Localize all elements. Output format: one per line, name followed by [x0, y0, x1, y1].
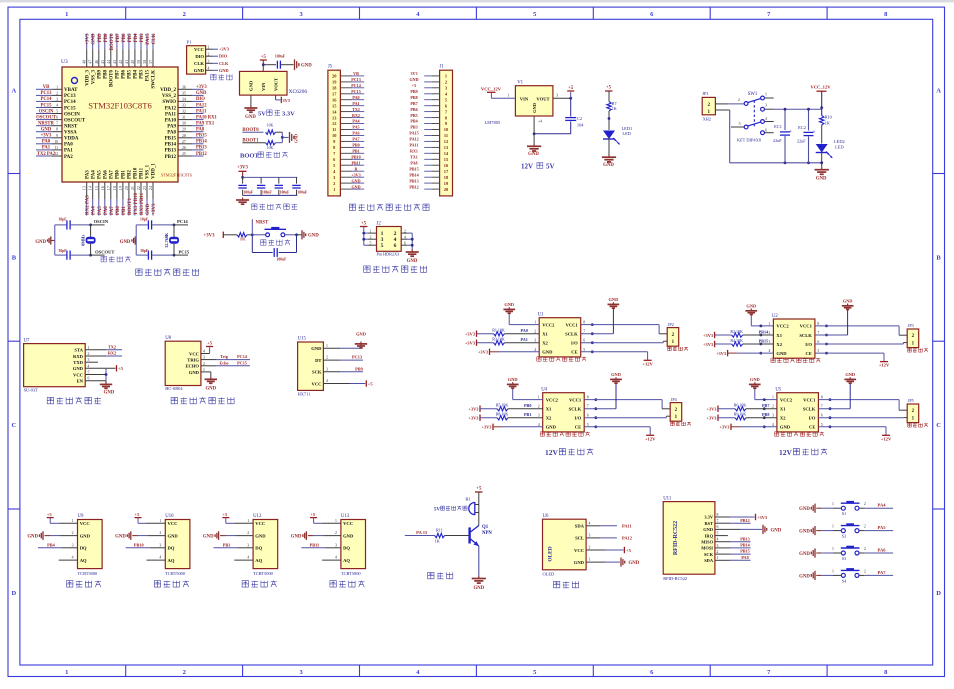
svg-text:4: 4 [335, 556, 337, 560]
svg-text:3: 3 [88, 358, 90, 362]
svg-text:6: 6 [394, 243, 397, 249]
svg-text:+3V3: +3V3 [468, 416, 479, 421]
svg-text:TX2: TX2 [108, 344, 116, 349]
svg-text:+3V3: +3V3 [706, 407, 717, 412]
svg-text:PA5: PA5 [98, 206, 103, 215]
svg-text:11: 11 [332, 127, 336, 132]
svg-text:C: C [12, 422, 17, 429]
svg-text:VCC: VCC [574, 548, 584, 553]
svg-text:+12V: +12V [642, 361, 653, 366]
svg-text:+3V3: +3V3 [757, 515, 768, 520]
svg-text:PB0: PB0 [116, 170, 121, 179]
svg-text:P1: P1 [187, 40, 192, 45]
svg-text:PB10: PB10 [351, 155, 360, 160]
svg-text:GND: GND [80, 533, 91, 538]
svg-text:+5: +5 [310, 512, 316, 517]
svg-text:PA1: PA1 [42, 146, 51, 151]
svg-text:PB14: PB14 [759, 329, 769, 334]
svg-text:+3V3: +3V3 [351, 172, 360, 177]
svg-text:17: 17 [106, 186, 111, 190]
svg-text:1: 1 [381, 231, 384, 237]
svg-text:DIO: DIO [195, 54, 204, 59]
svg-text:PA4: PA4 [91, 170, 96, 179]
svg-text:SCK: SCK [704, 552, 714, 557]
svg-text:33: 33 [182, 104, 186, 108]
svg-text:3: 3 [203, 356, 205, 360]
svg-text:VCC: VCC [189, 351, 199, 356]
svg-text:+3V3: +3V3 [716, 351, 727, 356]
svg-text:+3V3: +3V3 [204, 234, 216, 239]
svg-text:Echo: Echo [219, 360, 228, 365]
svg-text:6: 6 [717, 525, 719, 529]
svg-text:R8 10K: R8 10K [496, 412, 509, 417]
svg-text:5: 5 [739, 122, 741, 126]
svg-text:PB15: PB15 [165, 137, 177, 142]
svg-text:SCLK: SCLK [803, 407, 816, 412]
svg-text:VCC_12V: VCC_12V [810, 84, 831, 89]
svg-text:CLK: CLK [219, 61, 229, 66]
svg-text:GND: GND [245, 115, 256, 120]
svg-text:GND: GND [532, 103, 537, 113]
svg-text:PB7: PB7 [762, 403, 769, 408]
svg-text:100nF: 100nF [280, 191, 291, 195]
svg-text:2: 2 [208, 52, 210, 56]
svg-text:STM32F103C8T6: STM32F103C8T6 [161, 173, 192, 178]
svg-text:28: 28 [182, 134, 186, 138]
svg-text:8: 8 [817, 322, 819, 326]
svg-text:2: 2 [247, 531, 249, 535]
svg-text:+3V3: +3V3 [86, 33, 91, 45]
svg-text:10pF: 10pF [140, 218, 149, 222]
svg-text:4: 4 [159, 556, 161, 560]
svg-text:22uF: 22uF [797, 138, 806, 143]
svg-text:VCC2: VCC2 [776, 324, 789, 329]
svg-text:PA1: PA1 [521, 337, 528, 342]
svg-text:1K: 1K [612, 106, 617, 111]
svg-text:VDD_1: VDD_1 [152, 163, 157, 179]
svg-text:30pF: 30pF [59, 249, 68, 253]
svg-text:5V: 5V [434, 508, 441, 513]
svg-text:PB3: PB3 [140, 33, 145, 42]
svg-text:22: 22 [136, 186, 141, 190]
svg-text:1: 1 [534, 321, 536, 325]
svg-text:GND: GND [746, 304, 756, 309]
svg-text:XH2: XH2 [703, 117, 711, 122]
svg-text:+3V3: +3V3 [703, 333, 714, 338]
svg-text:CE: CE [806, 351, 812, 356]
svg-text:PB15: PB15 [759, 338, 769, 343]
svg-text:PA10: PA10 [165, 118, 177, 123]
svg-text:PA4: PA4 [352, 119, 359, 124]
svg-text:PB4: PB4 [134, 33, 139, 42]
svg-text:2: 2 [394, 231, 397, 237]
svg-text:U15: U15 [298, 337, 307, 342]
svg-text:3: 3 [247, 543, 249, 547]
svg-text:RX2 PA3: RX2 PA3 [86, 195, 91, 215]
svg-text:PA11: PA11 [165, 112, 177, 117]
svg-text:5: 5 [587, 423, 589, 427]
svg-text:PA6: PA6 [878, 548, 887, 553]
svg-text:PA11: PA11 [409, 143, 418, 148]
svg-text:PB9: PB9 [410, 89, 417, 94]
svg-text:PB13: PB13 [409, 178, 418, 183]
svg-text:BOOT0: BOOT0 [109, 70, 114, 87]
svg-text:PC13: PC13 [41, 91, 53, 96]
svg-text:23: 23 [142, 186, 147, 190]
svg-text:100nF: 100nF [275, 55, 286, 59]
svg-text:A: A [936, 87, 941, 94]
svg-text:D: D [12, 590, 17, 597]
svg-text:1: 1 [208, 45, 210, 49]
svg-text:MISO: MISO [701, 540, 713, 545]
svg-text:SDA: SDA [575, 524, 585, 529]
svg-text:PA6: PA6 [103, 170, 108, 179]
svg-text:+5: +5 [606, 86, 612, 91]
svg-text:4: 4 [88, 364, 90, 368]
svg-text:LM7805: LM7805 [485, 120, 502, 125]
svg-text:GND: GND [799, 530, 810, 535]
svg-text:4: 4 [203, 350, 205, 354]
svg-text:SCK: SCK [312, 370, 322, 375]
svg-text:+5: +5 [412, 83, 416, 88]
svg-text:PA 15: PA 15 [416, 530, 428, 535]
svg-text:11: 11 [54, 146, 58, 150]
svg-text:GND: GND [799, 574, 810, 579]
svg-text:PB11: PB11 [310, 542, 320, 547]
svg-text:PB1: PB1 [352, 149, 359, 154]
svg-text:1: 1 [772, 396, 774, 400]
svg-text:12: 12 [332, 121, 336, 126]
svg-text:PA0: PA0 [64, 143, 73, 148]
svg-text:SCL: SCL [575, 536, 584, 541]
svg-text:10K: 10K [239, 237, 246, 241]
svg-text:18: 18 [112, 186, 117, 190]
svg-text:PB14: PB14 [165, 143, 177, 148]
svg-text:SCLK: SCLK [569, 407, 582, 412]
svg-text:43: 43 [112, 60, 117, 64]
svg-text:X2: X2 [776, 342, 782, 347]
svg-text:11: 11 [444, 133, 448, 138]
svg-text:OSCIN: OSCIN [94, 219, 109, 224]
svg-text:PA6: PA6 [104, 206, 109, 215]
svg-text:GND: GND [293, 134, 298, 143]
svg-text:15: 15 [94, 186, 99, 190]
svg-text:VCC: VCC [168, 521, 178, 526]
svg-text:LED: LED [622, 131, 631, 136]
svg-text:GND: GND [528, 152, 539, 157]
svg-text:100nF: 100nF [277, 258, 288, 262]
svg-text:PC13: PC13 [352, 355, 362, 360]
svg-text:100nF: 100nF [243, 191, 254, 195]
svg-text:PB13: PB13 [740, 536, 750, 541]
svg-text:U12: U12 [253, 514, 262, 519]
svg-text:OLED: OLED [548, 546, 554, 561]
svg-text:1: 1 [589, 558, 591, 562]
svg-text:KFT DIP4X8: KFT DIP4X8 [737, 138, 762, 143]
svg-text:2: 2 [404, 229, 406, 233]
svg-text:1: 1 [335, 519, 337, 523]
svg-text:C: C [936, 422, 941, 429]
svg-text:8: 8 [587, 396, 589, 400]
svg-text:8: 8 [583, 321, 585, 325]
svg-text:TX3 PB10: TX3 PB10 [134, 192, 139, 215]
svg-text:DIO: DIO [219, 54, 228, 59]
svg-text:1: 1 [832, 547, 834, 551]
svg-text:U9: U9 [78, 514, 84, 519]
svg-text:PA7: PA7 [878, 570, 887, 575]
svg-text:6: 6 [88, 377, 90, 381]
svg-text:+3V3: +3V3 [152, 203, 157, 215]
svg-text:TX2 PA2: TX2 PA2 [37, 152, 56, 157]
svg-text:PA12: PA12 [622, 535, 632, 540]
svg-text:DT: DT [315, 358, 321, 363]
svg-text:VCC1: VCC1 [803, 397, 816, 402]
svg-text:+12V: +12V [645, 436, 656, 441]
svg-text:OSCOUT: OSCOUT [95, 250, 114, 255]
svg-text:100nF: 100nF [262, 191, 273, 195]
svg-text:+3V3: +3V3 [465, 332, 476, 337]
svg-text:VCC: VCC [80, 521, 90, 526]
svg-text:1: 1 [159, 519, 161, 523]
svg-text:PB15: PB15 [196, 134, 207, 139]
svg-text:1: 1 [717, 556, 719, 560]
svg-text:2: 2 [445, 80, 447, 85]
svg-text:VSS_1: VSS_1 [146, 164, 151, 179]
svg-text:GND: GND [168, 533, 179, 538]
svg-text:PB9: PB9 [355, 366, 363, 371]
svg-text:1: 1 [765, 93, 767, 97]
svg-text:12V: 12V [545, 448, 559, 457]
svg-text:PA1: PA1 [352, 101, 359, 106]
svg-text:PB12: PB12 [409, 184, 418, 189]
svg-text:Q1: Q1 [482, 525, 489, 530]
svg-text:4: 4 [56, 104, 58, 108]
svg-text:41: 41 [124, 60, 129, 64]
svg-text:NRST: NRST [64, 125, 78, 130]
svg-text:TCRT5000: TCRT5000 [78, 571, 99, 576]
svg-text:PA3: PA3 [85, 170, 90, 179]
svg-text:D: D [936, 590, 941, 597]
svg-text:1: 1 [326, 344, 328, 348]
svg-text:X2: X2 [542, 341, 548, 346]
svg-text:R10: R10 [825, 114, 832, 119]
svg-text:+3V3: +3V3 [703, 342, 714, 347]
svg-text:GND: GND [799, 552, 810, 557]
svg-text:+5: +5 [47, 512, 53, 517]
svg-text:VDD_3: VDD_3 [85, 70, 90, 86]
svg-text:1: 1 [832, 525, 834, 529]
svg-text:10K: 10K [267, 146, 274, 150]
svg-text:31: 31 [182, 116, 186, 120]
svg-text:48: 48 [82, 60, 87, 64]
svg-text:+3V3: +3V3 [481, 425, 492, 430]
svg-text:U7: U7 [24, 338, 30, 343]
svg-text:VSS_2: VSS_2 [162, 94, 177, 99]
svg-text:PB4: PB4 [134, 70, 139, 79]
svg-text:4: 4 [772, 423, 774, 427]
svg-text:PA4: PA4 [92, 206, 97, 215]
svg-text:2: 2 [589, 546, 591, 550]
svg-text:42: 42 [118, 60, 123, 64]
svg-text:VBAT: VBAT [64, 88, 78, 93]
svg-text:PB4: PB4 [47, 542, 55, 547]
svg-text:VCC1: VCC1 [565, 322, 578, 327]
svg-text:+5: +5 [222, 512, 228, 517]
svg-text:AQ: AQ [255, 558, 262, 563]
svg-text:6: 6 [765, 129, 767, 133]
svg-text:NPN: NPN [482, 531, 492, 536]
svg-text:LED1: LED1 [622, 126, 633, 131]
svg-text:PB14: PB14 [409, 172, 418, 177]
svg-text:VB: VB [353, 71, 359, 76]
svg-text:21: 21 [130, 186, 135, 190]
svg-text:PB5: PB5 [128, 33, 133, 42]
svg-text:RX3 PB11: RX3 PB11 [140, 192, 145, 215]
svg-text:TCRT5000: TCRT5000 [165, 571, 186, 576]
svg-text:1: 1 [508, 94, 510, 98]
svg-text:PA11: PA11 [196, 109, 207, 114]
svg-text:PA0: PA0 [42, 140, 51, 145]
svg-text:U13: U13 [341, 514, 350, 519]
svg-text:3: 3 [72, 543, 74, 547]
svg-text:I/O: I/O [809, 416, 816, 421]
svg-text:OSCIN: OSCIN [39, 109, 54, 114]
svg-text:20: 20 [124, 186, 129, 190]
svg-text:5V: 5V [546, 163, 555, 171]
svg-text:2: 2 [72, 531, 74, 535]
svg-text:SU-03T: SU-03T [24, 387, 38, 392]
svg-text:2: 2 [183, 669, 186, 676]
svg-text:GND: GND [311, 346, 322, 351]
svg-text:PA7: PA7 [109, 170, 114, 179]
svg-text:TCRT5000: TCRT5000 [341, 571, 362, 576]
svg-text:34: 34 [182, 97, 186, 101]
svg-text:PB1: PB1 [524, 412, 531, 417]
svg-text:VCC_12V: VCC_12V [481, 87, 502, 92]
svg-text:X1: X1 [780, 407, 786, 412]
svg-text:PC15: PC15 [179, 250, 190, 255]
svg-text:PB14: PB14 [740, 543, 750, 548]
svg-text:VCC2: VCC2 [780, 397, 793, 402]
svg-text:5V: 5V [258, 111, 266, 118]
svg-text:GND: GND [750, 377, 760, 382]
svg-text:PA6: PA6 [352, 131, 359, 136]
svg-text:GND: GND [609, 297, 619, 302]
svg-text:NRST: NRST [256, 221, 270, 226]
svg-text:4: 4 [208, 67, 210, 71]
svg-text:PB8: PB8 [762, 412, 769, 417]
svg-text:1: 1 [247, 519, 249, 523]
svg-text:6: 6 [404, 241, 406, 245]
svg-text:GND: GND [120, 240, 131, 245]
svg-text:VIN: VIN [520, 96, 529, 101]
svg-text:GND: GND [73, 366, 84, 371]
svg-text:S3: S3 [842, 556, 846, 561]
svg-text:PB6: PB6 [122, 33, 127, 42]
svg-text:5: 5 [583, 348, 585, 352]
svg-text:GND: GND [351, 184, 360, 189]
svg-text:2: 2 [326, 356, 328, 360]
svg-text:R2 10K: R2 10K [730, 329, 743, 334]
svg-text:A: A [12, 87, 17, 94]
svg-text:3: 3 [208, 60, 210, 64]
svg-text:3: 3 [326, 367, 328, 371]
svg-text:2: 2 [738, 98, 740, 102]
svg-text:AQ: AQ [168, 558, 175, 563]
svg-text:1: 1 [72, 519, 74, 523]
svg-text:RXD: RXD [73, 354, 84, 359]
svg-text:ECHO: ECHO [185, 364, 199, 369]
svg-text:U4: U4 [541, 388, 547, 393]
svg-text:6: 6 [56, 116, 58, 120]
svg-text:GND: GND [194, 68, 205, 73]
svg-text:1: 1 [445, 74, 447, 79]
svg-text:3: 3 [768, 340, 770, 344]
svg-text:+5: +5 [626, 548, 632, 553]
svg-text:13: 13 [82, 186, 87, 190]
svg-text:R9 10K: R9 10K [734, 412, 747, 417]
svg-text:I/O: I/O [805, 342, 812, 347]
svg-text:OSCOUT: OSCOUT [64, 118, 86, 123]
svg-text:2: 2 [772, 405, 774, 409]
svg-text:GND: GND [611, 372, 621, 377]
svg-text:1: 1 [88, 346, 90, 350]
svg-text:GND: GND [41, 128, 52, 133]
svg-text:RX2: RX2 [108, 351, 116, 356]
svg-text:PC15: PC15 [351, 89, 361, 94]
svg-text:I/O: I/O [575, 416, 582, 421]
svg-text:4: 4 [589, 521, 591, 525]
svg-text:PB10: PB10 [134, 542, 144, 547]
svg-text:TCRT5000: TCRT5000 [253, 571, 274, 576]
svg-text:CE: CE [809, 425, 815, 430]
svg-text:12V: 12V [521, 163, 533, 171]
svg-text:SCLK: SCLK [565, 332, 578, 337]
svg-text:LED: LED [835, 145, 844, 150]
svg-text:GND: GND [776, 351, 787, 356]
svg-text:GND: GND [115, 535, 126, 540]
svg-text:GND: GND [542, 350, 553, 355]
svg-text:4: 4 [538, 423, 540, 427]
svg-text:+3V3: +3V3 [706, 416, 717, 421]
svg-text:PA9: PA9 [167, 125, 176, 130]
svg-text:DQ: DQ [168, 546, 175, 551]
svg-text:2: 2 [864, 502, 866, 506]
svg-text:U1: U1 [538, 313, 544, 318]
svg-text:PA7: PA7 [110, 206, 115, 215]
svg-text:4: 4 [717, 538, 719, 542]
svg-text:2: 2 [538, 405, 540, 409]
svg-text:PB14: PB14 [196, 140, 207, 145]
svg-text:PA4: PA4 [878, 503, 887, 508]
svg-text:RX2: RX2 [352, 113, 360, 118]
svg-text:VSS_3: VSS_3 [91, 70, 96, 85]
svg-text:TXD: TXD [73, 360, 83, 365]
svg-text:32: 32 [182, 110, 186, 114]
svg-text:PB0: PB0 [116, 206, 121, 215]
svg-text:26: 26 [182, 146, 186, 150]
svg-text:PA11: PA11 [622, 523, 632, 528]
svg-text:+4: +4 [538, 120, 542, 124]
svg-text:BOOT: BOOT [240, 153, 259, 160]
svg-text:J1: J1 [440, 65, 445, 70]
svg-text:4: 4 [247, 556, 249, 560]
svg-text:GND: GND [780, 425, 791, 430]
svg-text:9: 9 [56, 134, 58, 138]
svg-text:GND: GND [255, 533, 266, 538]
svg-text:7: 7 [583, 330, 585, 334]
svg-text:19: 19 [118, 186, 123, 190]
